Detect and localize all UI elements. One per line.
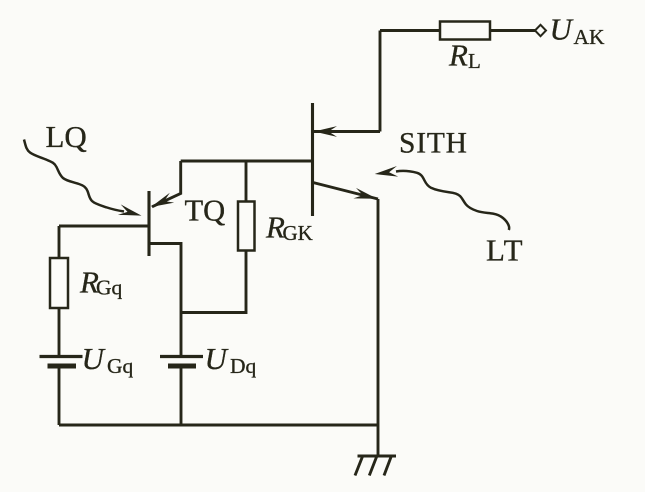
wire <box>58 226 61 258</box>
svg-text:U: U <box>205 341 230 376</box>
wire <box>490 29 535 32</box>
wire <box>180 368 183 425</box>
svg-text:Dq: Dq <box>230 354 257 378</box>
resistor R_L <box>440 22 490 40</box>
wire (bottom rail) <box>59 424 378 427</box>
LT light ray squiggle <box>396 171 509 230</box>
wire <box>58 368 61 425</box>
svg-text:GK: GK <box>283 221 313 245</box>
LT arrow <box>374 166 398 179</box>
thyristor SITH bar <box>311 103 314 216</box>
ground <box>355 456 396 476</box>
cathode arrow <box>353 188 378 204</box>
LQ light ray squiggle <box>24 140 124 212</box>
svg-text:SITH: SITH <box>399 128 468 160</box>
resistor R_GK <box>238 202 255 251</box>
svg-text:Gq: Gq <box>96 276 123 300</box>
wire (TQ base) <box>59 225 148 228</box>
wire <box>380 29 440 32</box>
wire (R_GK bottom lead) <box>181 251 246 313</box>
SITH cathode <box>313 183 378 200</box>
anode arrow into SITH <box>314 126 337 137</box>
svg-text:LT: LT <box>486 233 524 268</box>
wire <box>58 308 61 355</box>
transistor TQ bar <box>147 191 150 256</box>
svg-text:LQ: LQ <box>46 119 87 154</box>
resistor R_Gq <box>50 258 68 308</box>
svg-text:TQ: TQ <box>185 194 226 228</box>
svg-text:L: L <box>468 49 481 73</box>
svg-text:U: U <box>550 12 575 47</box>
battery U_Gq <box>40 357 83 367</box>
wire (TQ emitter) <box>148 244 181 356</box>
svg-text:R: R <box>448 38 468 73</box>
wire (gate) <box>181 160 312 163</box>
svg-text:Gq: Gq <box>107 354 134 378</box>
arrow into TQ <box>149 193 174 212</box>
battery U_Dq <box>160 357 203 367</box>
svg-text:AK: AK <box>574 25 606 49</box>
terminal U_AK diamond <box>535 25 546 36</box>
svg-text:U: U <box>82 341 107 376</box>
wire <box>314 130 380 133</box>
LQ arrow <box>118 204 143 220</box>
wire (TQ collector) <box>152 161 181 207</box>
wire <box>379 31 382 132</box>
wire (R_GK top lead) <box>245 161 248 202</box>
wire (cathode down) <box>377 199 380 456</box>
